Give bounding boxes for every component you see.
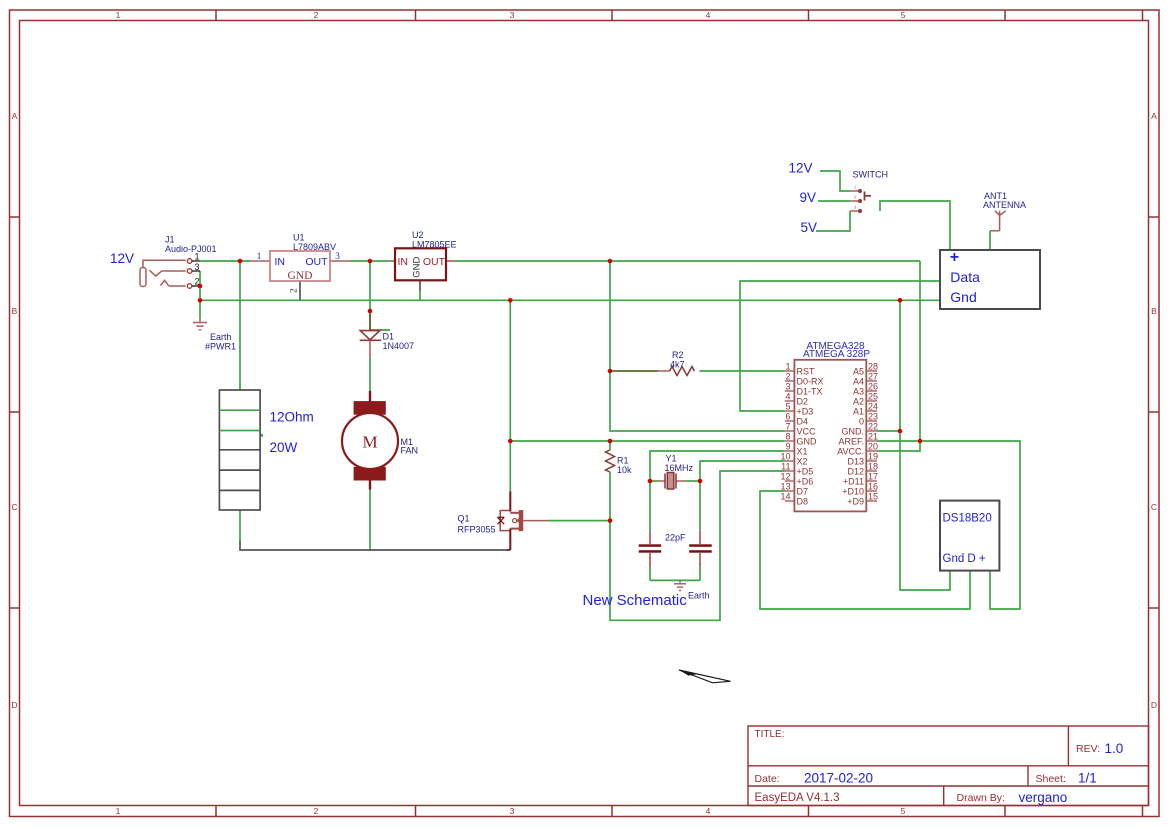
transistor Q1 RFP3055 [498,511,549,531]
wire AREF to DS18B20 plus [877,441,1020,609]
svg-text:1: 1 [116,10,121,20]
svg-text:D1-TX: D1-TX [797,386,823,396]
wire R1 top stub [609,441,611,450]
svg-text:26: 26 [868,382,878,392]
J1 pin rings [187,259,192,289]
J1 pin black stubs [192,261,200,286]
U1 pin2 gray line [299,281,301,300]
svg-text:Q1: Q1 [458,514,470,524]
node GND / DS18B20 branch [898,298,903,303]
wire 9V branch down to D1 [369,261,371,311]
wire U2 GND lower part [419,291,421,300]
antenna ANT1 [990,211,1006,231]
svg-text:A: A [12,111,18,121]
wire 5V down to AVCC and AREF [877,261,920,451]
svg-text:New Schematic: New Schematic [583,592,688,609]
svg-text:12V: 12V [789,161,813,176]
svg-text:16: 16 [868,482,878,492]
svg-text:11: 11 [781,462,790,472]
diode D1 1N4007 [360,331,382,358]
svg-text:SWITCH: SWITCH [853,170,889,180]
svg-text:A2: A2 [853,396,864,406]
svg-text:Gnd: Gnd [950,289,976,305]
wire stub at D1 anode [370,329,390,331]
svg-text:2: 2 [290,288,300,293]
sensor DS18B20 [940,501,999,571]
chip pin numbers left [780,362,790,502]
svg-text:Earth: Earth [210,332,232,342]
svg-text:D12: D12 [847,466,864,476]
svg-text:C: C [11,502,17,512]
svg-text:R2: R2 [672,350,684,360]
svg-text:AVCC.: AVCC. [837,446,864,456]
svg-text:D1: D1 [383,332,395,342]
wire U1 OUT to U2 IN [350,260,390,262]
svg-text:20: 20 [868,442,878,452]
switch SWITCH [850,191,858,211]
wire bank nub [259,434,264,437]
node X2 / crystal [698,479,703,484]
svg-text:vergano: vergano [1019,790,1068,805]
svg-text:ANTENNA: ANTENNA [983,200,1026,210]
wire bank divider green 2 [219,430,260,432]
chip U3 ATMEGA328 [794,360,866,512]
svg-text:2: 2 [785,372,790,382]
svg-text:VCC: VCC [797,426,817,436]
svg-text:2: 2 [314,806,319,816]
wire X2 pin10 [700,461,785,481]
svg-text:R1: R1 [617,456,629,466]
svg-text:1: 1 [257,252,262,262]
wire crystal left stub [650,480,658,482]
svg-text:28: 28 [868,362,878,372]
svg-text:4: 4 [706,806,711,816]
svg-text:+D5: +D5 [797,466,814,476]
svg-text:ATMEGA 328P: ATMEGA 328P [803,349,870,360]
wire left cap chain [649,481,651,531]
svg-text:15: 15 [868,492,878,502]
svg-text:+D9: +D9 [847,496,864,506]
chip pin names right [837,366,864,506]
wire chip GND pin22 [877,430,900,432]
wire D1 anode dark overlap [369,311,371,331]
svg-text:RST: RST [797,366,816,376]
capacitor left 22pF [649,531,651,544]
svg-text:3: 3 [510,10,515,20]
svg-text:4: 4 [706,10,711,20]
J1 pin numbers [194,252,199,287]
svg-text:9: 9 [785,442,790,452]
svg-text:Y1: Y1 [666,454,677,464]
svg-text:Date:: Date: [755,773,780,785]
svg-text:Audio-PJ001: Audio-PJ001 [165,244,217,254]
chip pin stubs right [866,371,877,501]
svg-text:D: D [1151,700,1157,710]
node GND / Q1 drain [508,298,513,303]
svg-text:12V: 12V [110,251,134,266]
svg-text:2017-02-20: 2017-02-20 [804,771,873,786]
wire RST dark overlap segment [610,370,658,372]
gray bottom rail [240,280,508,550]
svg-text:EasyEDA V4.1.3: EasyEDA V4.1.3 [755,792,840,804]
chip pin numbers right [868,362,878,502]
wire 12V branch down to resistor bank [239,261,241,390]
chip pin names left [797,366,824,506]
svg-text:12: 12 [780,472,790,482]
svg-text:TITLE:: TITLE: [755,729,785,740]
svg-text:Drawn By:: Drawn By: [957,792,1005,804]
svg-text:U2: U2 [412,230,424,240]
svg-text:+: + [950,249,959,266]
wire VCC vertical and to pin7 [610,261,785,431]
junction dots [198,259,923,523]
motor M1 FAN [369,391,371,402]
svg-text:20W: 20W [270,440,298,455]
wire Q1 drain up to ground bus [509,300,511,492]
node drain / GND row [508,439,513,444]
wire sensor Data to D3 [740,281,940,411]
node X1 / crystal [648,479,653,484]
svg-text:5V: 5V [801,220,818,235]
svg-text:X1: X1 [797,446,808,456]
wire GND row to pin8 [510,440,785,442]
wire R1 bottom to D5 loop [610,471,785,620]
node D1 anode [368,309,373,314]
svg-text:AREF.: AREF. [838,436,864,446]
wire 5V rail from U2 OUT to right [455,260,920,262]
svg-text:B: B [12,306,18,316]
svg-text:Earth: Earth [688,591,710,601]
wire 12V to switch [820,171,850,191]
node GND at J1 [198,298,203,303]
wire antenna to sensor [989,231,991,250]
svg-text:3: 3 [510,806,515,816]
svg-text:10: 10 [780,452,790,462]
node R1 / gate [608,518,613,523]
node GND row / R1 [608,439,613,444]
svg-text:U1: U1 [293,233,305,243]
svg-text:7: 7 [785,422,790,432]
ground Earth #PWR1 [193,319,207,330]
doodle arrow [679,670,731,683]
svg-text:+D3: +D3 [797,406,814,416]
title block text [755,729,1124,805]
svg-text:10k: 10k [617,465,632,475]
title block [748,726,1149,806]
wire D7 pin13 to DS18B20 D [760,491,970,609]
resistor R2 4k7 [658,370,670,372]
svg-text:Gnd D +: Gnd D + [943,553,986,565]
svg-text:1N4007: 1N4007 [383,341,415,351]
wire right cap chain [699,481,701,531]
wire gate to R1 node [548,520,610,522]
svg-text:X2: X2 [797,456,808,466]
svg-text:4k7: 4k7 [670,360,685,370]
svg-text:24: 24 [868,402,878,412]
svg-text:1/1: 1/1 [1078,771,1097,786]
wire bank bottom [239,510,241,542]
svg-text:Data: Data [950,269,980,285]
svg-text:D0-RX: D0-RX [797,376,824,386]
wire motor bottom to rail [369,489,371,550]
svg-text:12Ohm: 12Ohm [270,410,314,425]
node J1.1/12V [238,259,243,264]
svg-text:9V: 9V [800,190,817,205]
svg-text:A3: A3 [853,386,864,396]
crystal Y1 16MHz [658,473,686,490]
svg-text:3: 3 [194,262,199,272]
svg-text:8: 8 [785,432,790,442]
wire ground bus down to DS18B20 Gnd [900,300,950,590]
svg-text:3: 3 [785,382,790,392]
bank green dividers redrawn above box [219,409,260,411]
U2 GND pin gray upper [419,280,421,291]
svg-text:DS18B20: DS18B20 [943,513,992,525]
svg-text:13: 13 [780,482,790,492]
svg-text:OUT: OUT [305,256,328,268]
ground Earth below caps [674,580,686,590]
wire J1 pin3 down to pin2 and ground [199,271,201,319]
svg-text:#PWR1: #PWR1 [205,342,236,352]
svg-text:FAN: FAN [401,446,419,456]
svg-text:GND: GND [412,257,423,278]
svg-text:A4: A4 [853,376,864,386]
svg-text:5: 5 [785,402,790,412]
svg-text:2: 2 [314,10,319,20]
wire D1 cathode to motor [369,357,371,392]
svg-text:A1: A1 [853,406,864,416]
chip pin stubs left [785,371,795,501]
node AREF / 5V vertical [918,439,923,444]
svg-text:21: 21 [868,432,878,442]
svg-text:J1: J1 [165,235,175,245]
node J1 pin2 [198,284,203,289]
wire X1 pin9 [650,451,785,481]
svg-text:M: M [362,433,377,452]
svg-text:22: 22 [868,422,878,432]
svg-text:1.0: 1.0 [1105,741,1124,756]
svg-text:D4: D4 [797,416,809,426]
node 5V / VCC [608,259,613,264]
wire 5V to switch [816,211,850,231]
svg-text:B: B [1151,306,1157,316]
wire bank divider green 1 [219,409,260,411]
svg-text:D: D [11,700,17,710]
connector J1 Audio-PJ001 [140,260,186,286]
svg-text:25: 25 [868,392,878,402]
svg-text:GND: GND [288,270,313,282]
svg-text:6: 6 [785,412,790,422]
svg-text:1: 1 [785,362,790,372]
wire R2 to RST pin1 [699,370,784,372]
svg-text:+D10: +D10 [842,486,864,496]
regulator U2 LM7805EE [390,260,395,262]
svg-text:OUT: OUT [423,256,446,268]
svg-text:REV:: REV: [1076,743,1100,755]
svg-text:L7809ABV: L7809ABV [293,242,336,252]
svg-text:16MHz: 16MHz [665,463,694,473]
svg-text:Sheet:: Sheet: [1036,773,1066,785]
svg-text:A: A [1151,111,1157,121]
svg-text:5: 5 [901,10,906,20]
svg-text:18: 18 [868,462,878,472]
wire 9V to switch [818,200,850,202]
svg-text:RFP3055: RFP3055 [458,525,496,535]
svg-text:23: 23 [868,412,878,422]
svg-text:C: C [1151,502,1157,512]
svg-text:D8: D8 [797,496,809,506]
svg-text:5: 5 [901,806,906,816]
svg-text:3: 3 [335,252,340,262]
wire ground bus y=300 [200,299,940,301]
svg-text:A5: A5 [853,366,864,376]
sensor box (+ Data Gnd) [940,250,1040,309]
svg-text:LM7805EE: LM7805EE [412,240,457,250]
wire crystal right stub [686,480,700,482]
wire J1 pin1 to junction to U1 [200,260,250,262]
regulator U1 L7809ABV [250,260,270,262]
wire switch output to sensor plus [880,201,950,250]
svg-text:D7: D7 [797,486,809,496]
resistor bank 12Ohm 20W [219,390,260,510]
node pin22 GND [898,429,903,434]
svg-text:0: 0 [859,416,864,426]
node VCC / R2 [608,369,613,374]
svg-text:+D6: +D6 [797,476,814,486]
resistor R1 10k [606,450,615,472]
svg-text:GND.: GND. [842,426,865,436]
svg-text:22pF: 22pF [665,533,686,543]
node U1 OUT / 9V [368,259,373,264]
svg-text:D13: D13 [847,456,864,466]
svg-text:17: 17 [868,472,878,482]
capacitor right 22pF [699,531,701,544]
svg-text:IN: IN [275,256,286,268]
svg-text:14: 14 [780,492,790,502]
svg-text:+D11: +D11 [843,476,864,486]
svg-text:IN: IN [398,256,409,268]
svg-text:1: 1 [116,806,121,816]
svg-text:GND: GND [797,436,818,446]
svg-text:27: 27 [868,372,878,382]
wire cap bottom rail [650,579,700,581]
svg-text:4: 4 [785,392,790,402]
svg-text:19: 19 [868,452,878,462]
svg-text:D2: D2 [797,396,809,406]
